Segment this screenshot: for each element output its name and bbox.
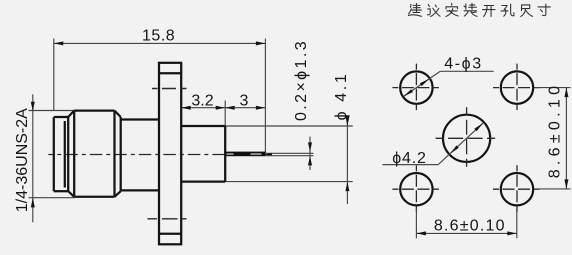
svg-text:ϕ4.2: ϕ4.2 <box>392 150 426 167</box>
svg-text:1/4-36UNS-2A: 1/4-36UNS-2A <box>14 108 31 212</box>
svg-text:4-ϕ3: 4-ϕ3 <box>444 56 483 73</box>
svg-text:8.6±0.10: 8.6±0.10 <box>434 218 506 235</box>
svg-text:3.2: 3.2 <box>191 92 213 109</box>
svg-text:ϕ 4.1: ϕ 4.1 <box>333 72 350 121</box>
svg-text:15.8: 15.8 <box>142 27 175 44</box>
svg-text:3: 3 <box>239 92 248 109</box>
svg-text:8.6±0.10: 8.6±0.10 <box>547 82 564 179</box>
svg-text:0.2×ϕ1.3: 0.2×ϕ1.3 <box>293 39 310 121</box>
